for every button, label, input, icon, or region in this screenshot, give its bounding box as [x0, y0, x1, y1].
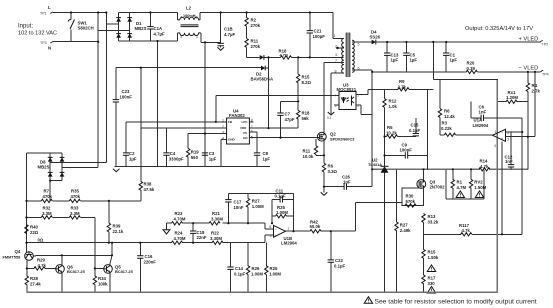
- svg-text:TP3: TP3: [40, 41, 47, 45]
- resistor R39: [107, 201, 124, 243]
- svg-text:1µF: 1µF: [263, 157, 271, 162]
- svg-text:C23: C23: [122, 89, 130, 94]
- wire pin5 to D4: [352, 41, 372, 43]
- svg-text:S802CH: S802CH: [78, 26, 94, 31]
- svg-text:3300pF: 3300pF: [169, 157, 184, 162]
- wire Q4 collector: [26, 260, 28, 268]
- svg-text:R6: R6: [328, 164, 334, 169]
- resistor R24: [172, 231, 186, 245]
- warning triangle R1: [456, 191, 464, 198]
- wire opamp out feed: [356, 203, 402, 232]
- capacitor C26: [324, 175, 372, 190]
- svg-text:BC817-25: BC817-25: [67, 269, 86, 274]
- svg-text:22nF: 22nF: [197, 235, 207, 240]
- svg-text:R2: R2: [251, 18, 257, 23]
- capacitor C6: [471, 102, 522, 121]
- resistor R28: [25, 268, 41, 292]
- svg-text:470k: 470k: [71, 194, 81, 199]
- svg-text:1.50k: 1.50k: [428, 255, 439, 260]
- wire Q5 base: [95, 267, 104, 269]
- svg-text:1µF: 1µF: [391, 58, 399, 63]
- wire pin6 out: [352, 70, 372, 187]
- svg-text:100pF: 100pF: [400, 148, 413, 153]
- svg-text:102 to 132 VAC: 102 to 132 VAC: [18, 31, 57, 37]
- svg-text:R30: R30: [406, 194, 414, 199]
- svg-text:R40: R40: [30, 225, 38, 230]
- wire U4 pin5 gate drive: [249, 137, 319, 139]
- resistor R33: [69, 206, 95, 220]
- resistor R25: [272, 205, 294, 218]
- resistor R4: [526, 72, 540, 169]
- svg-text:FAN302: FAN302: [229, 113, 245, 118]
- svg-text:2: 2: [196, 16, 198, 20]
- svg-text:1.20M: 1.20M: [506, 95, 518, 100]
- wire L2 out bottom: [201, 41, 221, 43]
- node -VLED / TP4: [519, 66, 549, 77]
- svg-text:R1: R1: [457, 180, 463, 185]
- svg-text:1: 1: [196, 35, 198, 39]
- svg-text:0.1µF: 0.1µF: [234, 272, 245, 277]
- capacitor C4: [163, 128, 184, 167]
- capacitor C5: [403, 42, 417, 72]
- svg-text:3: 3: [180, 35, 182, 39]
- svg-text:FMMT558: FMMT558: [3, 255, 22, 260]
- warning triangle R17: [427, 286, 435, 293]
- svg-text:570k: 570k: [406, 199, 416, 204]
- svg-text:R34: R34: [98, 276, 106, 281]
- svg-text:4.70M: 4.70M: [174, 236, 186, 241]
- wire minus input row: [167, 222, 266, 224]
- svg-text:C14: C14: [235, 266, 243, 271]
- svg-text:BAV56DSA: BAV56DSA: [251, 77, 274, 82]
- svg-text:100k: 100k: [98, 282, 108, 287]
- svg-text:0.22k: 0.22k: [441, 126, 452, 131]
- svg-text:7: 7: [288, 227, 290, 231]
- resistor RV2: [469, 169, 486, 199]
- svg-text:R35: R35: [71, 189, 79, 194]
- svg-text:1.0k: 1.0k: [389, 104, 398, 109]
- resistor R1 with box: [446, 169, 484, 199]
- svg-text:8.2Ω: 8.2Ω: [302, 80, 312, 85]
- wire AC vertical B: [105, 13, 107, 163]
- resistor R26: [246, 243, 263, 293]
- wire bridge dc minus drop: [157, 41, 159, 167]
- svg-text:U1A: U1A: [474, 118, 483, 123]
- resistor R34: [93, 268, 108, 292]
- capacitor C2: [123, 122, 137, 167]
- wire tp4 sense drop: [534, 72, 536, 137]
- ground minus input: [163, 223, 170, 234]
- svg-text:4: 4: [494, 144, 496, 148]
- svg-text:C8: C8: [263, 151, 269, 156]
- svg-text:C16: C16: [145, 254, 153, 259]
- svg-text:1.00M: 1.00M: [269, 272, 281, 277]
- svg-text:MB2S: MB2S: [38, 165, 50, 170]
- transformer T1: [334, 33, 360, 78]
- resistor Rx1: [498, 90, 528, 103]
- optocoupler U3: [335, 83, 359, 110]
- wire bridge top rail to L2: [119, 12, 178, 14]
- integrator top wire: [228, 192, 293, 194]
- svg-text:1µF: 1µF: [129, 157, 137, 162]
- node +VLED / TP2: [519, 37, 549, 47]
- svg-text:1.50M: 1.50M: [474, 185, 486, 190]
- svg-text:2N7002: 2N7002: [430, 185, 446, 190]
- wire VDD drop from D2: [268, 68, 270, 128]
- svg-text:4.7k: 4.7k: [462, 228, 471, 233]
- capacitor C13: [384, 42, 399, 72]
- wire bridge bottom rail: [119, 40, 178, 42]
- diode D4: [370, 30, 381, 45]
- resistor R6: [322, 141, 337, 192]
- label input: [18, 24, 57, 37]
- wire rail drop to pin1: [333, 13, 344, 39]
- mosfet Q2: [317, 132, 355, 142]
- wire pin7 to Q2 drain: [324, 63, 344, 133]
- svg-text:BC817-25: BC817-25: [115, 269, 134, 274]
- resistor R11b current sense: [303, 139, 325, 159]
- svg-text:+: +: [501, 137, 503, 141]
- resistor R29: [27, 258, 56, 271]
- transistor Q4: [3, 249, 34, 260]
- svg-text:+ VLED: + VLED: [519, 37, 539, 43]
- ground primary: [113, 169, 120, 172]
- resistor R16: [279, 49, 292, 60]
- svg-text:Q4: Q4: [15, 249, 21, 254]
- capacitor C8 on pin6: [249, 132, 270, 167]
- svg-text:See table for resistor selecti: See table for resistor selection to modi…: [375, 299, 537, 306]
- svg-text:3.30M: 3.30M: [210, 236, 222, 241]
- svg-text:C1A: C1A: [154, 26, 163, 31]
- svg-text:27.4k: 27.4k: [30, 282, 41, 287]
- svg-text:V1: V1: [327, 116, 331, 120]
- svg-text:1: 1: [334, 34, 336, 38]
- svg-text:4.7k: 4.7k: [480, 164, 489, 169]
- svg-text:Output: 0.325A/14V to 17V: Output: 0.325A/14V to 17V: [465, 26, 533, 32]
- wire snubber to pin3: [269, 56, 344, 58]
- svg-text:C17: C17: [234, 200, 242, 205]
- warning triangle RV2: [475, 191, 483, 198]
- wire Q5 emitter: [109, 273, 111, 292]
- capacitor C17: [225, 193, 244, 223]
- resistor R22: [210, 231, 223, 245]
- svg-text:2.7k: 2.7k: [532, 89, 541, 94]
- wire secondary gnd rail: [372, 168, 528, 170]
- mosfet Q3: [417, 169, 445, 205]
- svg-text:4.7µF: 4.7µF: [154, 32, 165, 37]
- svg-text:2: 2: [507, 131, 509, 135]
- svg-text:1.00M: 1.00M: [276, 210, 288, 215]
- wire startup drop / resistor R38: [139, 68, 155, 201]
- wire startup rail: [116, 67, 261, 69]
- svg-text:R23: R23: [175, 211, 183, 216]
- svg-text:R27: R27: [252, 199, 260, 204]
- capacitor C1: [443, 42, 457, 72]
- op-amp U1B: [269, 225, 297, 245]
- svg-text:R15: R15: [428, 250, 436, 255]
- svg-text:GND: GND: [228, 138, 236, 142]
- svg-text:R32: R32: [43, 206, 51, 211]
- svg-text:0.39: 0.39: [467, 66, 476, 71]
- svg-text:1: 1: [495, 130, 497, 134]
- svg-text:5: 5: [358, 43, 360, 47]
- svg-text:+: +: [275, 234, 277, 238]
- svg-text:C2: C2: [129, 151, 135, 156]
- svg-text:LPC: LPC: [242, 120, 249, 124]
- node N / TP3 input terminal: [40, 41, 53, 51]
- wire U4 pin4 gnd: [221, 139, 227, 166]
- resistor R15: [297, 57, 312, 110]
- wire U4 pin3: [188, 133, 226, 135]
- svg-text:470k: 470k: [43, 194, 53, 199]
- node L / TP1 input terminal: [40, 5, 53, 16]
- svg-text:L2: L2: [186, 6, 192, 11]
- svg-text:1.00M: 1.00M: [251, 272, 263, 277]
- wire integrator right: [293, 193, 295, 231]
- wire plus input row: [171, 242, 265, 244]
- switch SW1: [68, 13, 94, 42]
- resistor R32: [27, 206, 70, 220]
- wire top rail to transformer: [200, 12, 333, 14]
- wire opto anode gnd: [331, 105, 339, 112]
- svg-text:Input:: Input:: [18, 24, 33, 30]
- capacitor C23: [113, 68, 133, 167]
- wire L top rail: [53, 12, 106, 14]
- capacitor C15: [409, 118, 420, 137]
- wire D8 plus drop: [26, 153, 28, 252]
- wire U1A out / resistor R3: [440, 121, 493, 137]
- resistor R2: [245, 13, 261, 39]
- svg-text:0.1µF: 0.1µF: [409, 128, 420, 133]
- capacitor C7: [277, 101, 298, 137]
- wire U4 pin1 FB: [126, 121, 227, 123]
- capacitor C18: [190, 223, 207, 243]
- svg-text:R12: R12: [389, 99, 397, 104]
- svg-text:3.3M: 3.3M: [70, 211, 80, 216]
- svg-text:3.3M: 3.3M: [42, 211, 52, 216]
- svg-text:10.0k: 10.0k: [303, 154, 314, 159]
- transistor Q6: [56, 265, 86, 275]
- svg-text:R38: R38: [144, 182, 152, 187]
- wire tl431 chain vertical: [384, 137, 386, 293]
- wire c6 riser: [521, 118, 523, 235]
- svg-text:R29: R29: [37, 258, 45, 263]
- svg-text:R39: R39: [113, 224, 121, 229]
- svg-text:47.5k: 47.5k: [144, 187, 155, 192]
- resistor R27b: [395, 169, 411, 292]
- svg-text:0.1µF: 0.1µF: [275, 194, 286, 199]
- svg-text:R18: R18: [302, 111, 310, 116]
- capacitor C16: [137, 243, 156, 293]
- warning triangle R15b: [427, 265, 435, 272]
- resistor R13: [422, 214, 439, 235]
- svg-text:330: 330: [428, 281, 436, 286]
- svg-text:3: 3: [222, 131, 224, 135]
- svg-text:R5: R5: [387, 125, 393, 130]
- resistor R25b: [265, 243, 282, 293]
- svg-text:R6: R6: [444, 109, 450, 114]
- svg-text:4: 4: [180, 16, 182, 20]
- svg-text:3.3Ω: 3.3Ω: [328, 169, 338, 174]
- svg-text:10.2k: 10.2k: [386, 131, 397, 136]
- wire jog to bridge col2: [98, 29, 130, 31]
- capacitor C9: [385, 143, 428, 159]
- wire U1B output: [286, 229, 356, 232]
- svg-text:C7: C7: [285, 112, 291, 117]
- wire FB riser: [215, 95, 217, 122]
- svg-text:TL431A: TL431A: [368, 162, 382, 167]
- svg-text:3: 3: [335, 53, 337, 57]
- resistor R15b: [422, 234, 439, 275]
- wire frame right vertical: [496, 79, 498, 292]
- wire output + rail: [376, 41, 540, 43]
- svg-text:1nF: 1nF: [343, 180, 351, 185]
- wire AC vertical A: [97, 13, 99, 168]
- svg-text:22Ω: 22Ω: [30, 230, 39, 235]
- svg-text:R28: R28: [30, 276, 38, 281]
- resistor R40: [25, 225, 39, 236]
- resistor R11: [245, 39, 261, 58]
- resistor R27: [246, 193, 264, 223]
- svg-text:R4: R4: [532, 83, 538, 88]
- wire minus input jog: [265, 223, 273, 229]
- svg-text:LM2904: LM2904: [281, 241, 297, 246]
- wire U1A in3: [506, 136, 536, 138]
- resistor R7: [27, 189, 70, 203]
- wire D8 ac taps: [50, 163, 106, 168]
- wire Q6 collector: [61, 255, 63, 264]
- wire jog to bridge col1: [106, 23, 118, 25]
- resistor R5: [385, 125, 416, 138]
- ground primary power: [321, 192, 328, 195]
- svg-text:560: 560: [191, 155, 199, 160]
- wire D8 minus drop: [49, 181, 51, 201]
- svg-text:5: 5: [270, 234, 272, 238]
- svg-text:C4: C4: [170, 151, 176, 156]
- svg-text:C15: C15: [411, 123, 419, 128]
- svg-text:R17: R17: [428, 276, 436, 281]
- svg-text:270k: 270k: [251, 44, 261, 49]
- svg-text:R19: R19: [191, 150, 199, 155]
- capacitor C1B: [217, 13, 235, 51]
- svg-text:TP2: TP2: [542, 43, 549, 47]
- svg-text:270k: 270k: [251, 23, 261, 28]
- svg-text:C3: C3: [209, 151, 215, 156]
- svg-text:3.30M: 3.30M: [211, 217, 223, 222]
- capacitor C12: [505, 132, 515, 169]
- wire opto collector: [356, 89, 368, 94]
- resistor R42: [310, 220, 322, 233]
- svg-text:R20: R20: [467, 61, 475, 66]
- wire jumper row 0ohm: [27, 238, 172, 243]
- svg-text:4.70M: 4.70M: [174, 217, 186, 222]
- bridge rectifier D8: [27, 153, 65, 181]
- wire U1A in2: [506, 131, 523, 133]
- capacitor C14: [227, 243, 245, 293]
- svg-text:MOC8021: MOC8021: [337, 87, 357, 92]
- resistor R30 box: [402, 188, 423, 207]
- svg-text:R11: R11: [303, 149, 311, 154]
- wire output sense top: [433, 78, 498, 80]
- svg-text:R26: R26: [252, 266, 260, 271]
- capacitor C11: [272, 189, 294, 224]
- resistor R20: [466, 61, 477, 74]
- svg-text:R7: R7: [44, 189, 50, 194]
- controller U4: [222, 109, 253, 145]
- svg-text:R14: R14: [480, 159, 488, 164]
- svg-text:100mH: 100mH: [183, 14, 196, 18]
- svg-text:R24: R24: [175, 231, 183, 236]
- svg-text:33.2k: 33.2k: [428, 220, 439, 225]
- svg-text:−: −: [275, 228, 277, 232]
- wire vdd-aux rail / resistor R9: [368, 79, 433, 91]
- resistor R14 in gnd rail: [479, 159, 490, 173]
- svg-text:R9: R9: [399, 79, 405, 84]
- svg-text:4.7k: 4.7k: [38, 263, 47, 268]
- wire Q5 collector: [110, 243, 112, 265]
- resistor R117: [459, 223, 472, 236]
- svg-text:2.49k: 2.49k: [400, 228, 411, 233]
- wire output sense vertical: [432, 42, 434, 79]
- svg-text:TP4: TP4: [542, 73, 549, 77]
- svg-text:R11: R11: [251, 39, 259, 44]
- svg-text:100nF: 100nF: [120, 95, 133, 100]
- wire U1A pin4 drop: [501, 141, 503, 234]
- svg-text:R15: R15: [302, 75, 310, 80]
- svg-text:SS26: SS26: [370, 35, 381, 40]
- svg-text:4.7µF: 4.7µF: [224, 32, 235, 37]
- svg-text:22.1k: 22.1k: [113, 229, 124, 234]
- svg-text:LM2904: LM2904: [473, 123, 489, 128]
- wire primary return vertical: [204, 42, 206, 166]
- svg-text:1nF: 1nF: [479, 110, 487, 115]
- resistor R17: [422, 275, 436, 293]
- resistor R23: [172, 211, 186, 225]
- svg-text:1µF: 1µF: [209, 157, 217, 162]
- resistor R18: [297, 110, 310, 128]
- capacitor C22: [328, 231, 346, 292]
- svg-text:47pF: 47pF: [285, 117, 295, 122]
- svg-text:R3: R3: [442, 121, 448, 126]
- wire pin2 stub: [338, 47, 344, 49]
- svg-text:RV2: RV2: [474, 180, 483, 185]
- svg-text:SPD02N60C3: SPD02N60C3: [330, 137, 355, 142]
- op-amp U1A: [473, 118, 510, 149]
- svg-text:R22: R22: [211, 231, 219, 236]
- wire primary ground rail: [114, 166, 270, 168]
- svg-text:R21: R21: [212, 211, 220, 216]
- svg-text:50.0k: 50.0k: [310, 224, 321, 229]
- wire pin8 down: [331, 73, 344, 114]
- svg-text:4.7Ω: 4.7Ω: [280, 53, 289, 58]
- wire U4 pin7 vdd: [249, 127, 298, 129]
- svg-text:10nF: 10nF: [234, 205, 244, 210]
- capacitor C1A: [147, 13, 165, 42]
- svg-text:4: 4: [222, 137, 224, 141]
- resistor R6b: [438, 79, 455, 134]
- svg-text:N: N: [48, 46, 51, 51]
- svg-text:−: −: [501, 131, 503, 135]
- svg-text:4.7M: 4.7M: [457, 185, 467, 190]
- resistor R19: [187, 134, 200, 167]
- svg-text:56k: 56k: [302, 116, 310, 121]
- svg-text:C21: C21: [314, 29, 322, 34]
- svg-text:2.7k: 2.7k: [398, 85, 407, 90]
- wire sense drop: [427, 89, 429, 169]
- svg-text:R27: R27: [400, 223, 408, 228]
- wire bottom rail: [27, 291, 498, 293]
- svg-text:0Ω: 0Ω: [38, 238, 44, 243]
